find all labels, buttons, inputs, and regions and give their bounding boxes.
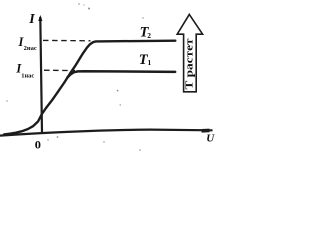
svg-text:0: 0: [35, 140, 41, 152]
svg-text:I: I: [28, 12, 35, 27]
svg-text:U: U: [206, 133, 215, 145]
curve T2: [4, 41, 175, 135]
axis I (vertical): [40, 17, 42, 133]
big arrow T rastet: [177, 14, 202, 91]
scan specks: [6, 3, 143, 151]
axis U (horizontal): [0, 130, 213, 136]
axis U arrowhead: [202, 129, 210, 133]
dashed level I1nas: [44, 69, 75, 71]
svg-text:1: 1: [148, 58, 152, 67]
svg-text:2нас: 2нас: [24, 45, 37, 52]
curve T1: [68, 71, 176, 77]
svg-text:Т растет: Т растет: [185, 38, 196, 89]
svg-text:2: 2: [147, 31, 151, 40]
dashed level I2nas: [43, 39, 91, 41]
svg-text:1нас: 1нас: [21, 73, 34, 80]
axis I arrowhead: [38, 15, 42, 21]
